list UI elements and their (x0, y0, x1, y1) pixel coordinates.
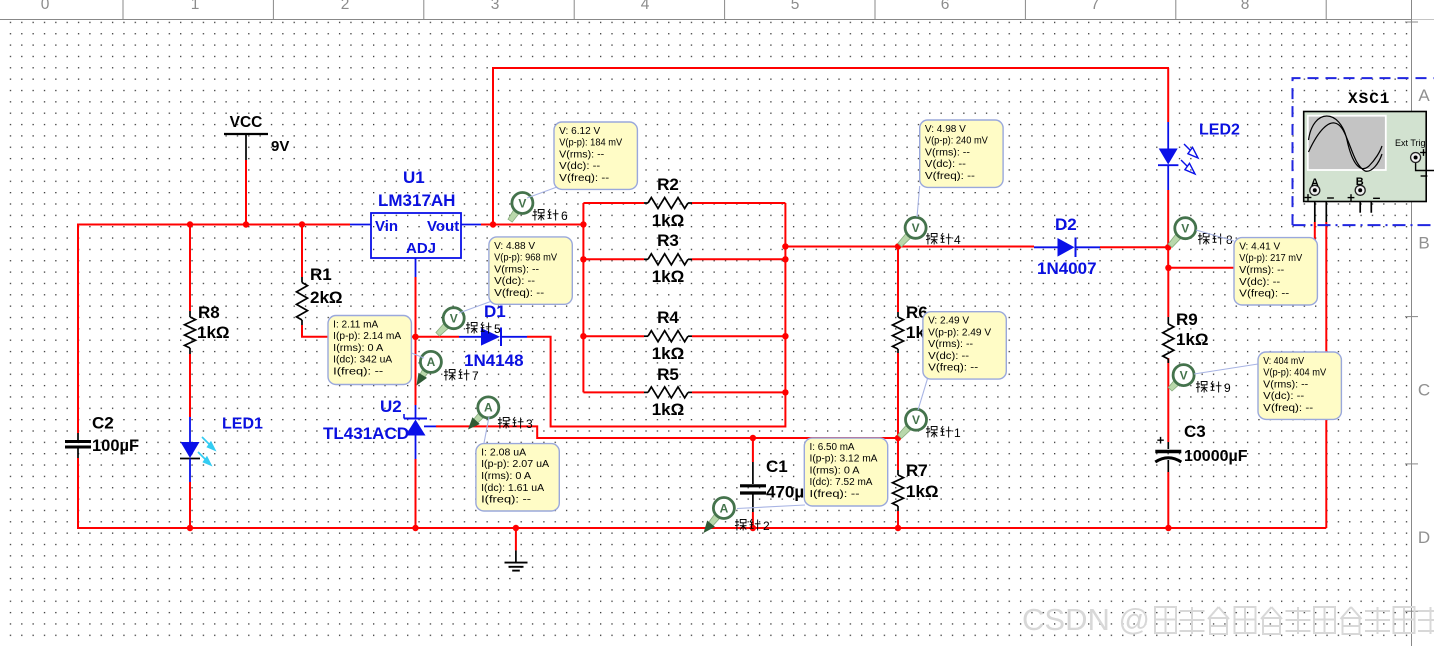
resistor R8 1k (185, 303, 230, 354)
svg-text:V(rms): --: V(rms): -- (928, 339, 973, 350)
resistor R1 2k (297, 265, 343, 325)
wire R2 left (583, 202, 644, 204)
measurement box probe2 (804, 438, 887, 506)
svg-text:1: 1 (191, 0, 200, 13)
label probe4 (926, 233, 961, 247)
watermark (1022, 602, 1434, 637)
probe V8 (1168, 218, 1196, 248)
svg-text:0: 0 (41, 0, 50, 13)
wire R3 left (583, 258, 644, 260)
svg-text:9: 9 (1224, 381, 1231, 395)
svg-text:4: 4 (954, 233, 961, 247)
svg-text:2kΩ: 2kΩ (310, 288, 343, 307)
svg-text:B: B (1356, 176, 1364, 188)
svg-text:2: 2 (763, 519, 770, 533)
wire R2 right (692, 202, 785, 204)
wire R5 right (692, 391, 785, 393)
svg-text:V: V (450, 312, 458, 326)
diode D2 1N4007 (1034, 215, 1100, 278)
ruler right (1405, 0, 1434, 646)
svg-text:V: 2.49 V: V: 2.49 V (928, 316, 969, 327)
wire top rail (78, 224, 350, 226)
svg-text:I: 2.11 mA: I: 2.11 mA (333, 319, 378, 330)
svg-text:1kΩ: 1kΩ (197, 323, 230, 342)
svg-text:V(p-p): 217 mV: V(p-p): 217 mV (1239, 253, 1302, 264)
probe A2 (704, 498, 735, 534)
label probe8 (1198, 233, 1233, 247)
measurement box probe1 (923, 312, 1006, 379)
svg-text:V(rms): --: V(rms): -- (925, 147, 970, 158)
svg-text:6: 6 (941, 0, 950, 13)
LED LED1 (180, 416, 263, 483)
measurement box probe4 (920, 120, 1003, 187)
svg-text:I(p-p): 2.07 uA: I(p-p): 2.07 uA (481, 459, 549, 470)
label probe5 (466, 322, 501, 336)
resistor R3 1k (644, 231, 692, 286)
wire bottom rail (77, 527, 1326, 529)
probe V9 (1168, 365, 1194, 391)
svg-text:1kΩ: 1kΩ (652, 344, 685, 363)
wire LED2 bottom (1167, 190, 1169, 247)
label probe7 (444, 369, 479, 383)
svg-text:A: A (1418, 86, 1430, 105)
svg-text:R8: R8 (198, 303, 220, 322)
op-amp U1 LM317AH (350, 168, 481, 277)
svg-text:V(p-p): 968 mV: V(p-p): 968 mV (494, 253, 557, 264)
resistor R9 1k (1163, 310, 1209, 363)
svg-text:I: 2.08 uA: I: 2.08 uA (481, 448, 526, 459)
wire scope A plus horizontal (1168, 267, 1314, 269)
svg-text:7: 7 (1091, 0, 1100, 13)
wire U2 anode down (415, 459, 417, 528)
svg-text:V: V (1181, 222, 1189, 236)
oscilloscope XSC1 selection frame (1293, 78, 1434, 225)
capacitor C2 100uF (65, 414, 139, 459)
svg-text:2: 2 (341, 0, 350, 13)
svg-text:I(p-p): 3.12 mA: I(p-p): 3.12 mA (810, 454, 878, 465)
probe A7 (417, 351, 442, 385)
wire scope A plus vertical (1314, 196, 1316, 268)
wire R5 left (583, 391, 644, 393)
label probe3 (498, 417, 533, 431)
svg-text:V(dc): --: V(dc): -- (559, 161, 600, 172)
svg-text:C: C (1418, 381, 1430, 400)
wire R6 bottom (897, 353, 899, 439)
svg-text:+: + (1157, 433, 1165, 448)
svg-text:U2: U2 (380, 397, 402, 416)
wire D1 out loop (527, 337, 785, 427)
wire network right vertical (784, 203, 786, 428)
wire R3 right (692, 258, 785, 260)
svg-text:Vin: Vin (375, 218, 398, 235)
wire R7 top (897, 438, 899, 470)
wire U2 cathode up (415, 337, 417, 405)
svg-text:V(p-p): 2.49 V: V(p-p): 2.49 V (928, 327, 991, 338)
svg-text:V: V (912, 221, 920, 235)
svg-text:Vout: Vout (427, 218, 459, 235)
svg-text:ADJ: ADJ (406, 240, 436, 257)
resistor R5 1k (644, 365, 692, 419)
svg-text:4: 4 (641, 0, 650, 13)
svg-text:R2: R2 (657, 175, 679, 194)
svg-text:V: 4.41 V: V: 4.41 V (1239, 242, 1280, 253)
svg-text:V(dc): --: V(dc): -- (1239, 277, 1280, 288)
svg-text:V(freq): --: V(freq): -- (1239, 289, 1289, 300)
svg-text:D2: D2 (1055, 215, 1077, 234)
label probe1 (926, 426, 961, 440)
svg-text:1kΩ: 1kΩ (906, 482, 939, 501)
svg-text:Ext Trig: Ext Trig (1395, 138, 1426, 148)
wire ground stem (515, 528, 517, 550)
probe V1 (898, 409, 927, 438)
resistor R2 1k (644, 175, 692, 230)
svg-text:R4: R4 (657, 308, 679, 327)
wire C3 to rail (1167, 472, 1169, 528)
svg-text:V(p-p): 240 mV: V(p-p): 240 mV (925, 136, 988, 147)
wire C1 top (752, 438, 754, 462)
svg-text:LED2: LED2 (1199, 122, 1240, 139)
svg-text:V: 6.12 V: V: 6.12 V (559, 126, 600, 137)
wire LED2 top (1167, 68, 1169, 122)
svg-text:5: 5 (494, 322, 501, 336)
svg-text:V: 4.88 V: V: 4.88 V (494, 241, 535, 252)
wire R9 node to R9 (1167, 268, 1169, 317)
svg-text:V: 404 mV: V: 404 mV (1263, 356, 1304, 367)
wire R8 to LED1 (189, 354, 191, 417)
svg-text:9V: 9V (271, 138, 289, 155)
svg-text:V: 4.98 V: V: 4.98 V (925, 124, 966, 135)
svg-text:C3: C3 (1184, 422, 1206, 441)
svg-text:V(dc): --: V(dc): -- (928, 351, 969, 362)
shunt regulator U2 TL431ACD (323, 397, 436, 459)
wire R1 bottom corner (302, 325, 416, 337)
svg-text:V: V (1180, 368, 1188, 382)
wire junctions (187, 221, 1172, 531)
measurement box probe7 (328, 316, 411, 385)
svg-text:R5: R5 (657, 365, 679, 384)
svg-text:C2: C2 (92, 414, 114, 433)
capacitor C3 10000uF (1155, 422, 1247, 472)
probe V5 (436, 308, 464, 336)
svg-text:V(rms): --: V(rms): -- (559, 149, 604, 160)
power VCC 9V (224, 114, 289, 155)
resistor R4 1k (644, 308, 692, 363)
svg-text:I(rms): 0 A: I(rms): 0 A (481, 471, 531, 482)
svg-text:I(rms): 0 A: I(rms): 0 A (333, 343, 383, 354)
label probe6 (533, 209, 568, 223)
svg-text:LED1: LED1 (222, 416, 263, 433)
resistor R7 1k (893, 461, 939, 511)
wire R1 top (301, 225, 303, 278)
wire scope B plus stub (1359, 196, 1361, 213)
wire VCC lead (245, 134, 247, 225)
svg-text:100µF: 100µF (92, 437, 139, 455)
svg-text:V(p-p): 184 mV: V(p-p): 184 mV (559, 138, 622, 149)
probe A3 (468, 397, 499, 430)
svg-text:1: 1 (954, 426, 961, 440)
svg-text:3: 3 (526, 417, 533, 431)
svg-text:TL431ACD: TL431ACD (323, 424, 409, 443)
svg-text:V(freq): --: V(freq): -- (559, 173, 609, 184)
svg-text:U1: U1 (403, 168, 425, 187)
svg-text:A: A (720, 501, 729, 515)
wire top loop horizontal (492, 67, 1169, 69)
measurement box probe3 (476, 444, 559, 511)
svg-text:D: D (1418, 528, 1430, 547)
wire R4 left (583, 335, 644, 337)
svg-text:R7: R7 (906, 461, 928, 480)
measurement box probe9 (1258, 352, 1341, 419)
svg-text:1kΩ: 1kΩ (652, 267, 685, 286)
wire output node (785, 246, 1034, 248)
svg-text:I(rms): 0 A: I(rms): 0 A (810, 465, 860, 476)
svg-text:V(dc): --: V(dc): -- (494, 276, 535, 287)
svg-text:A: A (1311, 177, 1319, 189)
wire left vertical C2 branch upper (77, 224, 79, 434)
wire ADJ down (415, 277, 417, 337)
ground (505, 550, 528, 570)
wire D1 anode (416, 336, 460, 338)
svg-text:LM317AH: LM317AH (378, 191, 455, 210)
svg-text:6: 6 (561, 209, 568, 223)
wire LED1 to rail (189, 482, 191, 528)
svg-text:V(freq): --: V(freq): -- (928, 363, 978, 374)
wire LED2 node down (1167, 247, 1169, 268)
svg-text:I(dc): 342 uA: I(dc): 342 uA (333, 355, 392, 366)
wire network left vertical (582, 203, 584, 392)
wire scope A minus (1315, 190, 1327, 528)
svg-text:V(freq): --: V(freq): -- (925, 171, 975, 182)
wire R7 bottom (897, 511, 899, 528)
diode D1 1N4148 (459, 302, 527, 370)
svg-text:1kΩ: 1kΩ (652, 211, 685, 230)
svg-text:10000µF: 10000µF (1184, 448, 1248, 465)
svg-text:V(dc): --: V(dc): -- (1263, 391, 1304, 402)
ruler top (0, 0, 1434, 20)
svg-text:R1: R1 (310, 265, 332, 284)
measurement box probe5 (489, 237, 572, 304)
svg-text:I(freq): --: I(freq): -- (333, 366, 383, 377)
svg-text:A: A (484, 401, 493, 415)
svg-text:V(p-p): 404 mV: V(p-p): 404 mV (1263, 368, 1326, 379)
svg-text:XSC1: XSC1 (1348, 90, 1390, 108)
svg-text:1kΩ: 1kΩ (1176, 330, 1209, 349)
wire Vout to network (481, 224, 584, 226)
wire scope B minus stub (1360, 190, 1371, 212)
svg-text:V(rms): --: V(rms): -- (494, 264, 539, 275)
probe V4 (898, 217, 926, 247)
svg-text:1N4007: 1N4007 (1037, 259, 1097, 278)
svg-text:I(freq): --: I(freq): -- (481, 495, 531, 506)
svg-text:V(freq): --: V(freq): -- (1263, 403, 1313, 414)
svg-text:I: 6.50 mA: I: 6.50 mA (810, 442, 855, 453)
wire top loop left vertical (492, 67, 494, 225)
label probe9 (1196, 381, 1231, 395)
svg-text:B: B (1418, 233, 1429, 252)
wire U2 ref (436, 426, 898, 438)
svg-text:V(rms): --: V(rms): -- (1263, 379, 1308, 390)
svg-text:3: 3 (491, 0, 500, 13)
resistor R6 1k (893, 303, 939, 353)
svg-text:I(dc): 1.61 uA: I(dc): 1.61 uA (481, 483, 544, 494)
wire D2 to LED2 node (1100, 246, 1169, 248)
measurement box probe6 (554, 122, 637, 189)
wire R8 top (189, 225, 191, 312)
wire R9 to C3 (1167, 358, 1169, 442)
svg-text:V: V (518, 196, 526, 210)
probe leader lines (409, 186, 1258, 509)
svg-text:5: 5 (791, 0, 800, 13)
svg-text:VCC: VCC (230, 114, 263, 131)
svg-text:7: 7 (472, 369, 479, 383)
svg-text:I(freq): --: I(freq): -- (810, 489, 860, 500)
capacitor C1 470uF (740, 457, 815, 512)
svg-text:V(rms): --: V(rms): -- (1239, 265, 1284, 276)
LED LED2 (1158, 122, 1240, 191)
probe V6 (508, 193, 533, 223)
svg-text:R9: R9 (1176, 310, 1198, 329)
measurement box probe8 (1234, 238, 1317, 305)
wire R4 right (692, 335, 785, 337)
svg-text:8: 8 (1241, 0, 1250, 13)
svg-text:1kΩ: 1kΩ (652, 400, 685, 419)
wire R6 top (897, 247, 899, 313)
svg-text:V: V (912, 413, 920, 427)
svg-text:V(dc): --: V(dc): -- (925, 159, 966, 170)
oscilloscope XSC1 body (1304, 112, 1434, 202)
svg-text:I(dc): 7.52 mA: I(dc): 7.52 mA (810, 477, 873, 488)
svg-text:R3: R3 (657, 231, 679, 250)
oscilloscope XSC1 label (1348, 90, 1390, 108)
svg-text:1N4148: 1N4148 (464, 351, 524, 370)
label probe2 (735, 519, 770, 533)
svg-text:I(p-p): 2.14 mA: I(p-p): 2.14 mA (333, 331, 401, 342)
svg-text:CSDN @: CSDN @ (1022, 602, 1150, 637)
wire left vertical C2 branch lower (77, 458, 79, 529)
wire C1 bottom (752, 512, 754, 528)
svg-text:C1: C1 (766, 457, 788, 476)
svg-text:V(freq): --: V(freq): -- (494, 288, 544, 299)
svg-text:A: A (427, 355, 436, 369)
